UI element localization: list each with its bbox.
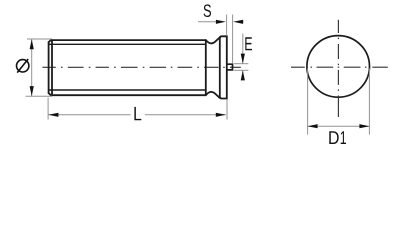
L arrows: [48, 113, 225, 117]
E extension top: [234, 63, 248, 65]
S arrows: [216, 20, 243, 24]
D1 dimension line: [308, 125, 370, 127]
thread end line: [205, 40, 207, 95]
chamfer end circle: [51, 40, 53, 95]
E extension bottom: [234, 69, 248, 71]
D1 dimension: [308, 69, 370, 135]
circle centerline vertical: [337, 20, 339, 117]
D1 extension left: [307, 69, 309, 135]
circle centerline horizontal: [291, 66, 388, 68]
S dimension: [198, 15, 244, 64]
E arrows: [241, 54, 245, 81]
chamfer bottom: [49, 93, 51, 95]
L extension left: [47, 98, 49, 120]
neck bottom curve: [206, 92, 220, 98]
D1 extension right: [368, 69, 370, 135]
dia dimension extension lines: [26, 39, 53, 96]
S dimension line tails: [198, 21, 218, 23]
thread root lines: [49, 44, 206, 90]
shank top edge: [51, 39, 206, 41]
stud shank outline: [49, 38, 220, 98]
D1 arrows: [308, 124, 370, 128]
circle view flange: [307, 36, 370, 98]
L dimension: [48, 98, 227, 120]
S label: [204, 4, 211, 17]
weld tip: [227, 64, 233, 70]
L extension right: [226, 100, 228, 120]
shank bottom edge: [51, 94, 206, 96]
S extension left: [226, 15, 228, 35]
E dimension line lower: [242, 70, 244, 80]
L label: [134, 107, 141, 120]
left end face: [48, 42, 50, 93]
L dimension line: [48, 114, 130, 116]
D1 label: [329, 131, 338, 144]
dia symbol: [17, 59, 29, 73]
E dimension line upper: [242, 34, 244, 64]
E dimension: [234, 34, 248, 81]
dia arrows: [30, 39, 34, 96]
chamfer top: [49, 40, 51, 42]
S extension right: [232, 15, 234, 64]
flange: [220, 36, 227, 98]
E label: [245, 37, 252, 50]
dia dimension line: [31, 39, 33, 96]
centerline side view (dash-dot): [43, 66, 241, 68]
neck top curve: [206, 38, 220, 44]
